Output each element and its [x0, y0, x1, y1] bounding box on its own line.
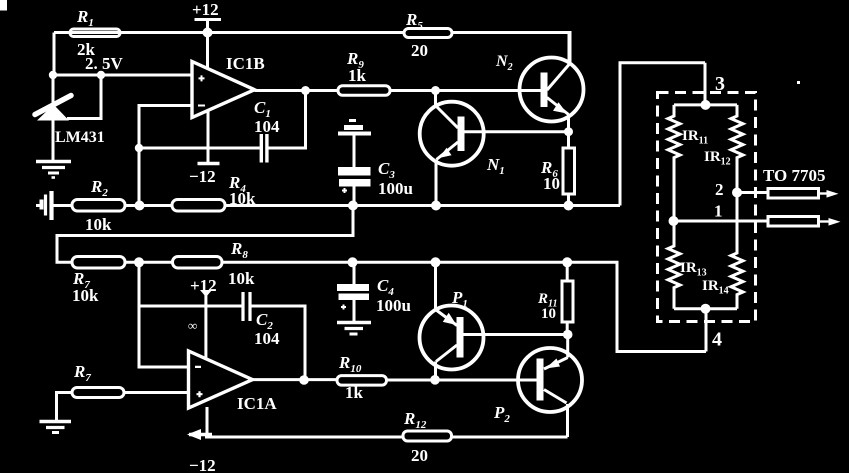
svg-text:4: 4: [712, 329, 722, 351]
resistor IR14: [731, 193, 743, 309]
wire R9 to N2 base: [390, 89, 541, 92]
wire bridge top: [674, 103, 737, 106]
node IC1A output: [299, 375, 309, 385]
op-amp U IC1A: [189, 351, 253, 408]
resistor R5: [404, 29, 452, 38]
resistor R7 lower: [72, 388, 124, 398]
svg-text:−12: −12: [189, 456, 216, 473]
wire IC1B inverting feedback: [139, 106, 192, 206]
wire output 2: [737, 191, 768, 194]
stray speck: [797, 81, 800, 84]
wire C1 right lead: [268, 91, 305, 149]
svg-text:100u: 100u: [376, 296, 411, 315]
wire R11 leads: [566, 262, 569, 334]
resistor R12: [403, 431, 452, 441]
wire output 1: [674, 220, 769, 223]
ground (R7 lower): [40, 420, 72, 423]
wire R10 to P2 base: [387, 379, 538, 382]
ground (C4): [337, 321, 371, 324]
wire R1 left drop: [53, 33, 56, 76]
svg-text:10: 10: [543, 174, 560, 193]
resistor R7: [72, 257, 125, 269]
svg-text:IC1A: IC1A: [237, 394, 277, 413]
node 2.5V left: [49, 71, 57, 79]
resistor R1: [70, 29, 120, 37]
svg-text:2. 5V: 2. 5V: [85, 54, 124, 73]
wire main bus: [52, 63, 706, 206]
node feedback/C1: [135, 144, 143, 152]
svg-text:20: 20: [411, 446, 428, 465]
transistor P1: [420, 306, 484, 370]
svg-text:+12: +12: [190, 276, 217, 295]
node N2 emitter / N1 base: [564, 127, 573, 136]
wire C1 left lead: [139, 147, 260, 150]
svg-text:10: 10: [541, 306, 556, 322]
corner mark top-left: [0, 0, 7, 11]
resistor R11: [562, 281, 573, 322]
node R2/R4: [135, 201, 145, 211]
svg-text:−12: −12: [189, 167, 216, 186]
svg-text:IC1B: IC1B: [226, 54, 265, 73]
svg-text:10k: 10k: [229, 189, 256, 208]
node N1 collector / base line: [431, 86, 440, 95]
node row2/P1 emitter: [431, 257, 441, 267]
resistor IR13: [668, 221, 680, 309]
svg-text:20: 20: [411, 41, 428, 60]
wire R6 bottom: [567, 194, 570, 206]
power +12 (IC1B): [195, 20, 222, 70]
svg-text:LM431: LM431: [55, 129, 105, 146]
node R10/P1 collector: [430, 375, 440, 385]
svg-text:1k: 1k: [345, 383, 364, 402]
output lug 2: [768, 189, 819, 199]
transistor P2: [518, 348, 582, 412]
wire bridge bottom: [674, 307, 737, 310]
wire lower R7 leads: [57, 393, 189, 422]
resistor R4: [172, 200, 225, 212]
wire N1 base to R6 node: [465, 130, 569, 133]
op-amp U IC1B: [192, 62, 255, 118]
node 3: [701, 100, 711, 110]
ground (LM431): [36, 160, 71, 163]
wire IC1B output: [255, 89, 339, 92]
svg-text:1k: 1k: [348, 66, 367, 85]
LM431 shunt regulator: [52, 75, 55, 105]
capacitor C1: [261, 134, 267, 163]
svg-text:TO 7705: TO 7705: [763, 166, 826, 185]
svg-text:104: 104: [254, 117, 280, 136]
wire R12 rail: [205, 436, 403, 439]
wire P1 base: [464, 333, 569, 336]
svg-text:100u: 100u: [378, 179, 413, 198]
node row2/R11: [562, 257, 572, 267]
node 4: [701, 304, 711, 314]
svg-text:104: 104: [254, 329, 280, 348]
node +12/R1 junction: [203, 28, 213, 38]
wire C2 right lead: [250, 306, 305, 380]
wire top rail: [54, 33, 570, 65]
resistor R9: [338, 86, 390, 96]
dashed bridge box: [658, 93, 756, 322]
svg-text:∞: ∞: [188, 318, 197, 333]
node IC1B output: [301, 86, 310, 95]
wire 2.5V node line: [53, 74, 192, 77]
wire C2 branch: [139, 305, 242, 308]
wire bus to R7 row: [57, 206, 353, 263]
node P1 base/R11/P2 emitter: [563, 330, 573, 340]
resistor IR12: [731, 105, 743, 193]
resistor R10: [337, 376, 387, 386]
svg-text:1: 1: [714, 202, 723, 221]
node 2.5V ref: [97, 71, 105, 79]
capacitor C3 (inverted ground top): [349, 119, 356, 122]
svg-text:+12: +12: [192, 0, 219, 19]
node 2: [732, 188, 742, 198]
svg-text:10k: 10k: [228, 269, 255, 288]
wire R8 node to IC1A feedback: [139, 262, 189, 367]
resistor IR11: [668, 105, 680, 221]
resistor R2: [72, 200, 125, 212]
capacitor C2: [243, 292, 250, 321]
resistor R6: [563, 148, 575, 194]
wire LM431 ref: [67, 75, 101, 119]
power -12 (IC1B): [198, 162, 220, 165]
output lug 1: [768, 217, 819, 227]
svg-text:10k: 10k: [72, 286, 99, 305]
node bus/R6: [564, 201, 574, 211]
wire row2: [125, 262, 706, 351]
capacitor C4: [353, 262, 356, 284]
input terminal: [36, 204, 42, 207]
svg-text:2: 2: [715, 180, 724, 199]
resistor R8: [173, 257, 223, 269]
svg-text:10k: 10k: [85, 215, 112, 234]
node bus/C3: [348, 201, 358, 211]
svg-text:3: 3: [715, 73, 725, 95]
wire IC1B -12 pin: [207, 111, 210, 162]
transistor N2: [520, 58, 584, 122]
transistor N1: [420, 102, 484, 166]
node 1: [669, 216, 679, 226]
power +12 (IC1A): [204, 294, 207, 360]
node R7/R8: [134, 257, 144, 267]
wire IC1A output: [253, 378, 338, 381]
wire IC1A -12 pin: [206, 407, 209, 433]
node row2/C4: [348, 257, 358, 267]
power -12 (IC1A): [189, 433, 212, 437]
node bus/N1 emitter: [431, 201, 441, 211]
